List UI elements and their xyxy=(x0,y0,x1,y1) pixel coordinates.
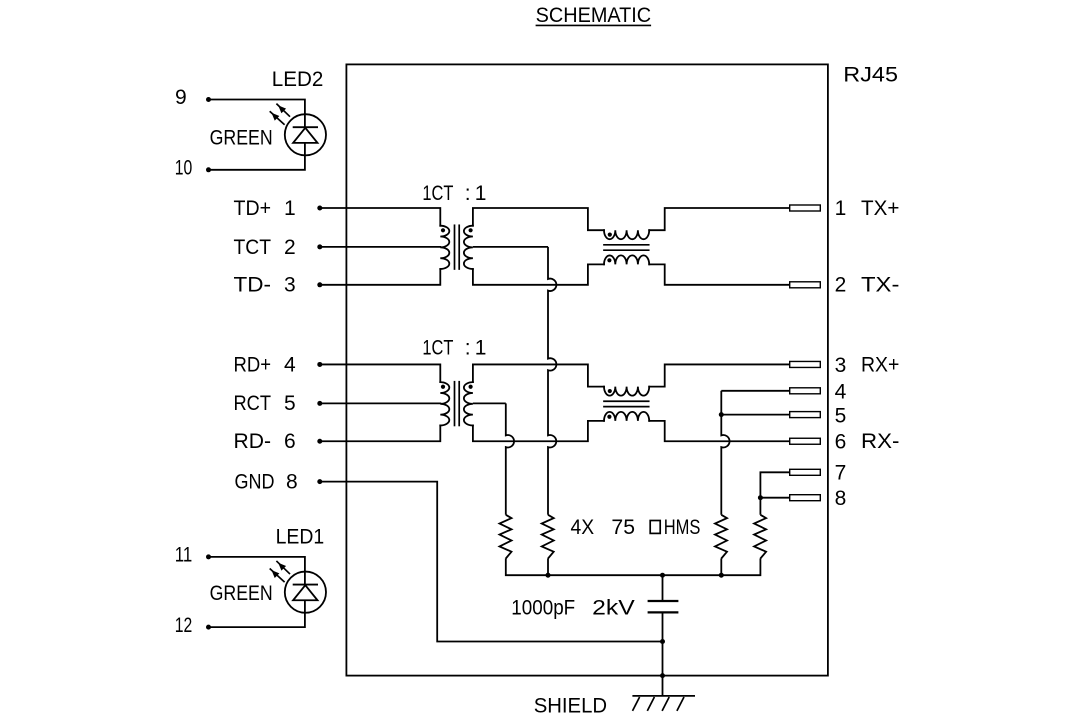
wire R2 lead xyxy=(547,558,549,575)
svg-text:LED1: LED1 xyxy=(276,526,325,549)
svg-text:TX-: TX- xyxy=(861,274,899,297)
shield ground bar xyxy=(632,695,695,697)
svg-text::: : xyxy=(465,337,471,360)
LED2 xyxy=(206,97,326,172)
LED1 xyxy=(206,554,326,629)
svg-text:1: 1 xyxy=(284,197,296,220)
pin terminal 5 xyxy=(790,412,821,418)
svg-text:HMS: HMS xyxy=(664,516,701,539)
shield hatching xyxy=(633,697,640,711)
svg-text:4X: 4X xyxy=(571,516,595,539)
resistor R1 xyxy=(500,515,512,559)
junction pin5 tap xyxy=(719,412,724,417)
svg-text:11: 11 xyxy=(175,543,193,566)
svg-text:SHIELD: SHIELD xyxy=(534,695,607,718)
wire T2 center tap to R1 xyxy=(473,402,506,404)
svg-text:4: 4 xyxy=(835,381,847,404)
svg-text:GREEN: GREEN xyxy=(210,127,273,150)
wire pin8 xyxy=(760,497,789,499)
junction cap-GND xyxy=(660,639,665,644)
wire pin4 to R3 xyxy=(721,390,789,392)
RX channel transformer T2 and choke xyxy=(317,361,820,444)
svg-text:4: 4 xyxy=(284,353,296,376)
svg-text:6: 6 xyxy=(284,430,296,453)
resistor R4 xyxy=(754,515,766,559)
svg-text:3: 3 xyxy=(284,274,296,297)
svg-text:LED2: LED2 xyxy=(272,68,324,91)
svg-text:8: 8 xyxy=(286,471,298,494)
svg-text:1: 1 xyxy=(475,337,487,360)
junction pin8 tap xyxy=(758,495,763,500)
junction bus R3 xyxy=(719,573,724,578)
svg-text:1CT: 1CT xyxy=(422,182,453,205)
svg-text:2: 2 xyxy=(835,274,847,297)
resistor R3 xyxy=(715,515,727,559)
wire pin7 to R4 xyxy=(760,472,789,515)
svg-text:5: 5 xyxy=(284,392,296,415)
svg-text:1CT: 1CT xyxy=(422,337,453,360)
svg-text:12: 12 xyxy=(175,614,193,637)
svg-text:RX-: RX- xyxy=(861,430,899,453)
junction shield on box edge xyxy=(660,673,665,678)
wire termination bus xyxy=(506,558,761,575)
svg-text:1: 1 xyxy=(835,197,847,220)
resistor R2 xyxy=(542,515,554,559)
svg-text::: : xyxy=(465,182,471,205)
pin terminal 7 xyxy=(790,469,821,475)
svg-text:75: 75 xyxy=(611,516,635,539)
pin terminal 4 xyxy=(790,388,821,394)
junction bus cap xyxy=(660,573,665,578)
junction bus R2 xyxy=(546,573,551,578)
svg-text:5: 5 xyxy=(835,404,847,427)
svg-text:2: 2 xyxy=(284,236,296,259)
capacitor C1 top lead xyxy=(662,575,664,600)
svg-text:RCT: RCT xyxy=(234,392,272,415)
svg-text:TD+: TD+ xyxy=(234,197,272,220)
svg-text:9: 9 xyxy=(175,86,187,109)
wire GND net xyxy=(320,482,663,642)
svg-text:2kV: 2kV xyxy=(592,596,635,619)
svg-text:8: 8 xyxy=(835,487,847,510)
title underline xyxy=(536,24,652,26)
wire R3 lead xyxy=(720,558,722,575)
wire T1 center tap to R2 xyxy=(473,246,548,248)
svg-text:RD+: RD+ xyxy=(234,353,272,376)
label OHMS omega box xyxy=(650,521,660,534)
wire pin5 xyxy=(721,414,789,416)
svg-text:TCT: TCT xyxy=(234,236,272,259)
svg-text:GREEN: GREEN xyxy=(210,582,273,605)
TX channel transformer T1 and choke xyxy=(317,205,820,288)
svg-text:GND: GND xyxy=(235,471,275,494)
svg-text:10: 10 xyxy=(175,157,193,180)
svg-text:1: 1 xyxy=(475,182,487,205)
svg-text:RD-: RD- xyxy=(234,430,272,453)
svg-text:6: 6 xyxy=(835,431,847,454)
capacitor C1 bottom lead xyxy=(662,613,664,696)
svg-text:1000pF: 1000pF xyxy=(511,596,575,619)
node GND pin dot xyxy=(317,479,322,484)
svg-text:TX+: TX+ xyxy=(861,197,899,220)
svg-text:TD-: TD- xyxy=(234,274,272,297)
pin terminal 8 xyxy=(790,495,821,501)
capacitor C1 plates xyxy=(648,600,679,602)
svg-text:RJ45: RJ45 xyxy=(843,63,898,86)
svg-text:3: 3 xyxy=(835,354,847,377)
RJ45 outline box xyxy=(346,64,828,675)
svg-text:7: 7 xyxy=(835,462,847,485)
svg-text:SCHEMATIC: SCHEMATIC xyxy=(536,4,652,27)
svg-text:RX+: RX+ xyxy=(861,353,899,376)
